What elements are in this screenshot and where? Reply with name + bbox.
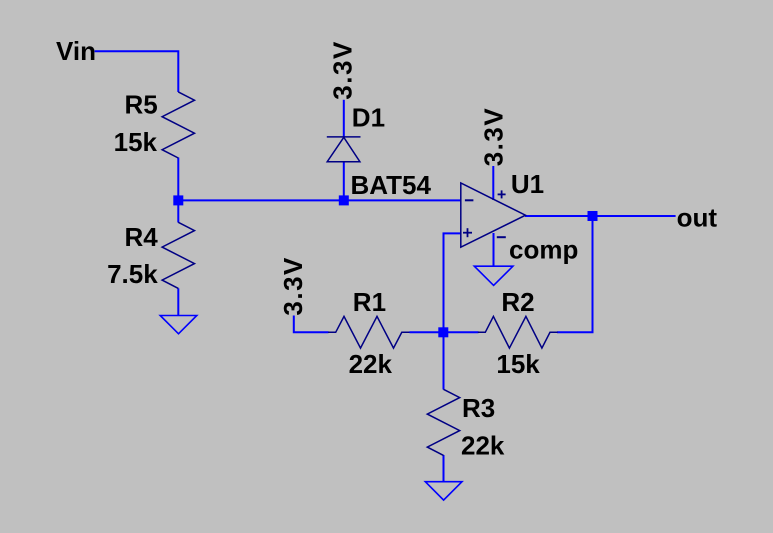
diode D1 cathode bar [327,136,361,138]
wire node to R2 left [444,331,479,333]
resistor R3 [427,389,459,455]
ground under R3 [425,482,462,500]
svg-text:comp: comp [509,235,578,265]
svg-text:7.5k: 7.5k [107,259,158,289]
resistor R2 [478,316,558,348]
wire R3 bottom to ground [443,455,445,482]
svg-text:U1: U1 [511,169,544,199]
wire R5 bottom to node to R4 top [177,158,179,223]
svg-text:BAT54: BAT54 [351,170,432,200]
node junction at output [588,211,598,221]
op-amp U1 body [461,183,526,247]
wire 3.3V to D1 cathode [343,100,345,138]
node junction at D1 anode [339,195,349,205]
svg-text:22k: 22k [349,349,393,379]
wire feedback noninverting input [444,233,461,333]
op-amp inverting input mark [465,199,474,201]
svg-text:15k: 15k [496,349,540,379]
op-amp noninverting input mark [463,228,472,237]
svg-text:3.3V: 3.3V [278,256,308,316]
svg-text:R1: R1 [353,287,386,317]
wire op-amp output to out [525,215,676,217]
node junction at R5/R4 divider [173,195,183,205]
svg-text:out: out [677,202,718,232]
wire op-amp V- pin to ground [493,233,495,266]
svg-text:3.3V: 3.3V [479,107,509,167]
svg-text:R5: R5 [124,90,157,120]
svg-text:Vin: Vin [56,36,96,66]
wire D1 anode to node [343,162,345,202]
resistor R1 [328,316,409,348]
resistor R4 [162,222,194,288]
wire 3.3V to R1 left [294,316,329,333]
wire Vin lead [95,51,179,92]
ground under R4 [160,316,197,334]
wire 3.3V to op-amp V+ pin [492,166,494,200]
wire node to R3 top [443,331,445,389]
svg-text:R2: R2 [501,287,534,317]
svg-text:22k: 22k [461,430,505,460]
wire main horizontal node to op-amp inverting input [177,199,461,201]
svg-text:R3: R3 [462,393,495,423]
ground under op-amp [474,266,513,285]
node junction at R1/R2/R3 [438,327,448,337]
svg-text:3.3V: 3.3V [328,40,358,100]
svg-text:R4: R4 [124,222,158,252]
op-amp V- pin mark [497,236,506,238]
svg-text:D1: D1 [352,102,385,132]
resistor R5 [162,92,194,158]
diode D1 body [327,137,360,161]
op-amp V+ pin mark [498,190,506,198]
wire output node down to R2 right [557,215,593,332]
wire R1 right to node [410,331,445,333]
svg-text:15k: 15k [114,127,158,157]
wire R4 bottom to ground [177,288,179,316]
